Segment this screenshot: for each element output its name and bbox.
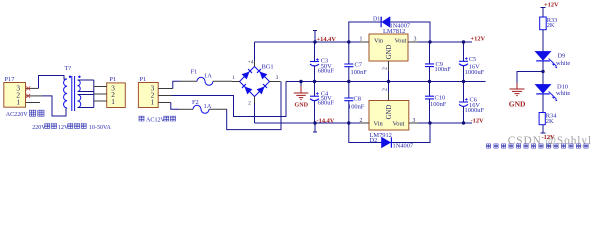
no-ERC X on pin3	[26, 86, 30, 90]
LED D9	[535, 51, 551, 60]
svg-text:100nF: 100nF	[435, 66, 452, 73]
LED D10	[535, 84, 551, 93]
svg-text:1: 1	[16, 97, 20, 106]
svg-text:white: white	[556, 90, 570, 97]
svg-text:Vin: Vin	[374, 37, 384, 44]
capacitor C6	[463, 82, 465, 102]
svg-text:2K: 2K	[547, 22, 555, 29]
svg-text:BG1: BG1	[262, 64, 274, 71]
svg-text:2: 2	[383, 67, 389, 70]
svg-text:1000uF: 1000uF	[465, 107, 485, 114]
svg-text:C7: C7	[355, 61, 363, 68]
svg-text:1000uF: 1000uF	[465, 69, 485, 76]
capacitor C8	[348, 82, 350, 98]
wire D10 to R34	[542, 94, 544, 113]
svg-text:220V: 220V	[32, 125, 46, 131]
svg-text:F1: F1	[191, 68, 198, 75]
svg-text:-12V: -12V	[542, 134, 556, 141]
caption 用于判断三端稳压是否正常工作	[486, 144, 588, 148]
wire bridge bottom to -rail	[254, 103, 256, 123]
bridge rectifier BG1	[240, 67, 270, 97]
wire F2 under-route to bridge right	[227, 82, 281, 130]
7912 pin stubs	[360, 122, 418, 124]
svg-text:100nF: 100nF	[348, 104, 365, 111]
wire pin3 jog up to F1	[173, 81, 180, 88]
capacitor C4	[314, 82, 316, 97]
svg-text:1A: 1A	[204, 72, 212, 79]
bottom rail	[255, 122, 370, 124]
P17 pin 3 stub	[26, 87, 39, 89]
7812 GND pin	[388, 61, 390, 82]
label 220V转双12V变压器 10-50VA	[32, 124, 111, 131]
GND symbol left	[300, 82, 302, 93]
wire center tap (pin2)	[172, 82, 287, 117]
svg-text:100nF: 100nF	[351, 69, 368, 76]
primary coil	[64, 79, 67, 108]
resistor R34	[539, 113, 545, 125]
label 双AC12V输入	[139, 116, 176, 124]
svg-text:1: 1	[111, 97, 115, 106]
7812 pin stubs	[360, 41, 418, 43]
P17 pin 2 stub	[26, 95, 42, 97]
svg-text:AC12V: AC12V	[146, 118, 166, 124]
svg-text:LM7812: LM7812	[383, 28, 405, 35]
svg-text:2K: 2K	[546, 118, 554, 125]
mid GND rail	[286, 81, 486, 83]
svg-text:+14.4V: +14.4V	[317, 36, 337, 43]
capacitor C3	[314, 42, 316, 61]
svg-text:AC220V: AC220V	[6, 112, 29, 118]
regulator LM7812	[369, 34, 408, 61]
power port -12V	[541, 125, 546, 133]
connector P1 (right)	[138, 76, 158, 108]
svg-text:680uF: 680uF	[318, 100, 335, 107]
svg-text:1A: 1A	[204, 103, 212, 110]
svg-text:+4: +4	[248, 61, 254, 66]
secondary upper coil	[78, 80, 81, 92]
wire D9 to junction	[542, 61, 544, 72]
P1 right pin stubs	[158, 88, 173, 90]
transformer T?	[64, 76, 81, 111]
svg-text:GND: GND	[386, 44, 393, 59]
bridge diodes	[241, 68, 267, 94]
svg-text:D9: D9	[558, 53, 566, 60]
wire junction to D10	[542, 72, 544, 85]
wire pin1 jog down to F2	[171, 103, 179, 110]
svg-text:white: white	[556, 60, 570, 67]
svg-text:+12V: +12V	[544, 2, 559, 9]
7912 GND pin	[388, 92, 390, 101]
svg-text:GND: GND	[509, 100, 526, 109]
fuse F1	[180, 80, 198, 82]
svg-text:P1: P1	[109, 76, 116, 83]
P17 pin 1 stub	[26, 102, 40, 104]
regulator LM7912	[369, 101, 409, 131]
svg-text:100nF: 100nF	[430, 101, 447, 108]
svg-text:C8: C8	[354, 95, 361, 102]
svg-text:2: 2	[383, 88, 389, 91]
junction dots	[299, 40, 544, 124]
capacitor C7	[348, 42, 350, 64]
GND symbol right	[510, 83, 525, 96]
wire R33 to D9	[542, 30, 544, 52]
bridge pins	[232, 61, 281, 104]
secondary junction vertical	[93, 80, 95, 108]
svg-text:Vin: Vin	[374, 120, 384, 127]
wire P17 pin2 to primary bottom	[42, 96, 67, 116]
capacitor C10	[429, 82, 431, 96]
svg-text:GND: GND	[386, 105, 393, 120]
wire P17 pin3 to primary top	[39, 76, 68, 89]
secondary lower coil	[78, 95, 81, 108]
svg-text:P17: P17	[5, 76, 16, 83]
wire bridge top to +rail	[254, 42, 256, 61]
svg-text:1: 1	[232, 75, 235, 81]
capacitor C9	[429, 42, 431, 64]
svg-text:Vout: Vout	[393, 120, 405, 127]
wire junction to GND	[517, 72, 543, 89]
power port -14.4V	[313, 123, 317, 132]
svg-text:1N4007: 1N4007	[393, 143, 414, 150]
top rail +14.4V	[255, 41, 370, 43]
svg-text:1: 1	[151, 98, 155, 107]
svg-text:Vout: Vout	[395, 37, 407, 44]
svg-text:12V: 12V	[58, 125, 69, 131]
svg-text:10-50VA: 10-50VA	[89, 125, 112, 131]
label AC220V输入	[6, 110, 44, 118]
connector P17	[4, 76, 26, 107]
resistor R33	[540, 17, 547, 30]
svg-text:GND: GND	[295, 102, 309, 108]
svg-text:680uF: 680uF	[318, 68, 335, 75]
capacitor C5	[463, 42, 465, 61]
svg-text:-14.4V: -14.4V	[317, 117, 335, 124]
svg-text:3: 3	[276, 75, 279, 81]
diode D2 1N4007	[349, 123, 430, 143]
connector P1 (left)	[107, 76, 126, 107]
secondary leads	[78, 80, 94, 108]
P1 left pin stubs	[94, 87, 107, 102]
diode D11 1N4007	[349, 22, 430, 42]
svg-text:C5: C5	[469, 56, 476, 63]
svg-text:+12V: +12V	[471, 35, 486, 42]
fuse F2	[179, 108, 193, 110]
svg-text:-12V: -12V	[471, 117, 485, 124]
svg-text:D11: D11	[373, 17, 383, 23]
svg-text:T?: T?	[65, 65, 72, 72]
power port +14.4V	[313, 31, 317, 43]
svg-text:F2: F2	[192, 99, 199, 106]
polarity dots	[69, 76, 71, 78]
svg-text:P1: P1	[140, 76, 147, 83]
core	[72, 76, 75, 111]
no-ERC X on pin2	[26, 94, 30, 98]
